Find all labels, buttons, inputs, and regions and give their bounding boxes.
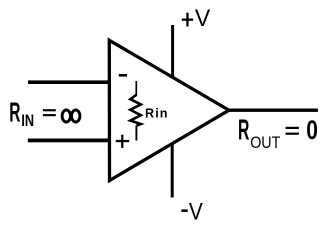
label plus non-inverting input <box>116 140 129 142</box>
wire -V supply <box>171 144 174 198</box>
label minus inverting input <box>119 74 127 77</box>
label +V <box>182 4 211 31</box>
wire inverting input <box>28 80 111 84</box>
svg-text:R: R <box>238 114 250 146</box>
plus sign of +V <box>182 19 193 21</box>
svg-text:OUT: OUT <box>250 134 281 152</box>
svg-text:R: R <box>9 95 20 127</box>
label RIN = infinity <box>9 95 80 130</box>
wire output <box>228 109 318 112</box>
op-amp U1 <box>109 40 229 180</box>
svg-text:IN: IN <box>21 113 34 131</box>
resistor Rin lead top <box>135 81 137 95</box>
wire +V supply <box>171 25 174 77</box>
label ROUT = 0 <box>238 114 318 153</box>
infinity symbol <box>62 110 70 122</box>
svg-text:V: V <box>189 198 203 223</box>
svg-text:0: 0 <box>306 115 318 145</box>
svg-text:Rin: Rin <box>145 107 169 121</box>
minus sign of -V <box>181 209 187 212</box>
equals sign of RIN label <box>43 109 56 111</box>
equals sign of ROUT label <box>286 127 299 129</box>
label -V <box>181 198 202 225</box>
resistor Rin lead bottom <box>135 125 137 140</box>
resistor Rin zigzag <box>130 95 141 126</box>
wire non-inverting input <box>28 139 111 143</box>
svg-text:V: V <box>195 4 211 31</box>
